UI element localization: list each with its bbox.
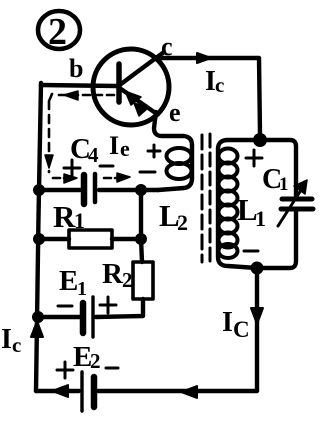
junction node: E1 row left — [33, 312, 44, 323]
svg-text:C: C — [233, 317, 250, 342]
polarity + (left of C4) — [64, 160, 80, 176]
svg-text:2: 2 — [48, 11, 67, 53]
svg-text:b: b — [69, 54, 83, 83]
svg-text:I: I — [109, 131, 119, 160]
junction node: tank bottom — [251, 262, 263, 274]
svg-text:1: 1 — [279, 174, 289, 195]
wire: collector top run — [157, 58, 260, 134]
wire: R1 row left segment — [39, 237, 69, 241]
svg-text:E: E — [59, 265, 78, 297]
inductor L1 loop 7 — [219, 233, 238, 248]
capacitor C1 variable arrow — [278, 187, 303, 226]
inductor L1 loop 1 — [219, 149, 238, 164]
junction node: C4 row right — [136, 185, 147, 196]
current arrow (bottom, mid, pointing left) — [181, 386, 197, 398]
junction node: tank top — [254, 134, 267, 147]
svg-text:e: e — [169, 98, 181, 127]
polarity + (tank top) — [246, 150, 262, 166]
svg-text:R: R — [102, 258, 124, 290]
wire: L2 bottom return to C4 row — [158, 178, 192, 190]
label C1 — [262, 164, 289, 195]
polarity + (E1 right) — [100, 297, 116, 313]
polarity - (tank bottom) — [244, 250, 258, 253]
wire: bottom row left of E2 — [36, 389, 79, 393]
battery E1 positive plate (long thin) — [91, 297, 94, 337]
inductor L1 loop 8 — [219, 244, 238, 258]
svg-text:2: 2 — [122, 268, 133, 292]
svg-text:2: 2 — [90, 349, 101, 373]
junction node: R1 row left — [34, 234, 45, 245]
wire: C4 row left segment — [39, 188, 80, 192]
svg-text:1: 1 — [74, 208, 85, 233]
transistor Q1 emitter arrowhead 2 — [134, 103, 148, 116]
current arrow (bottom, near E2, pointing left) — [52, 385, 68, 397]
polarity - (below emitter plus) — [140, 171, 155, 174]
capacitor C1 plate top — [282, 197, 312, 202]
current arrow Ic (right rail, pointing down) — [251, 308, 263, 324]
svg-text:I: I — [222, 307, 233, 338]
current arrow Ic (left rail, pointing up) — [31, 321, 43, 337]
inductor L2 loop 2 — [167, 163, 192, 179]
svg-text:1: 1 — [255, 206, 266, 231]
label Ic top — [205, 66, 224, 97]
battery E2 negative plate (short thick) — [91, 377, 98, 407]
figure number 2 (circled) — [38, 11, 80, 53]
wire: R1 row right segment — [112, 237, 141, 241]
capacitor C4 plate left — [81, 175, 88, 204]
wire: mid vertical (C4 row to R1 row) — [139, 190, 143, 239]
svg-text:c: c — [215, 73, 224, 97]
inductor L2 loop 1 — [167, 148, 192, 164]
wire: E1 row left segment — [38, 315, 80, 319]
label R2 — [102, 258, 133, 292]
svg-text:e: e — [120, 136, 130, 161]
battery E1 negative plate (short thick) — [80, 303, 87, 333]
junction node: R1 row right — [136, 234, 147, 245]
wire: R2 top lead — [141, 239, 142, 262]
label R1 — [53, 199, 85, 234]
inductor L1 loop 2 — [219, 163, 238, 178]
transistor Q1 emitter stroke — [121, 89, 157, 114]
svg-text:1: 1 — [77, 278, 87, 300]
resistor R1 — [69, 230, 112, 248]
transistor Q1 emitter arrowhead 1 — [125, 91, 141, 105]
transformer core line right — [209, 134, 212, 263]
transformer core line left — [201, 135, 204, 262]
wire: tank right branch bottom — [259, 211, 296, 268]
polarity - (E1 left) — [58, 305, 72, 308]
inductor L1 loop 4 — [219, 191, 238, 206]
label Ie — [109, 131, 130, 161]
junction node: C4 row left — [34, 185, 45, 196]
inductor L2 vertical link — [190, 145, 194, 178]
wire: bottom row right of E2 — [98, 272, 257, 391]
label L1 — [237, 192, 266, 231]
transistor Q1 collector stroke — [121, 52, 164, 84]
battery E2 positive plate (long thin) — [80, 372, 83, 411]
label E1 — [59, 265, 87, 300]
svg-text:c: c — [12, 333, 21, 357]
svg-text:2: 2 — [177, 210, 188, 235]
wire: base lead horizontal — [41, 85, 117, 86]
capacitor C4 plate right — [93, 174, 98, 202]
dashed base-current path: vertical (arrow down) — [48, 101, 51, 172]
svg-text:I: I — [1, 324, 12, 355]
label E2 — [73, 341, 101, 373]
wire: emitter lead down to L2 — [154, 112, 192, 145]
current arrow Ic (top, pointing right) — [197, 53, 211, 63]
wire: tank top left branch — [218, 140, 259, 268]
dashed base-current path: arrow into C4 — [53, 177, 68, 180]
wire: left vertical rail — [36, 83, 41, 391]
dashed base-current path: corner hook — [49, 94, 52, 101]
resistor R2 — [133, 262, 153, 299]
dashed base-current path: arrow after C4 — [104, 177, 119, 180]
polarity - (E2 right) — [106, 367, 118, 370]
transistor Q1 body — [93, 49, 169, 125]
wire: C4 row right segment — [99, 188, 158, 192]
transistor Q1 base bar — [116, 64, 122, 102]
inductor L1 loop 6 — [219, 219, 238, 234]
polarity - (right of C4) — [100, 165, 113, 168]
svg-text:R: R — [53, 199, 76, 234]
capacitor C1 plate bottom — [281, 207, 313, 212]
polarity + (below e, emitter) — [148, 145, 160, 157]
label C4 — [70, 133, 99, 167]
label Ic right — [222, 307, 250, 342]
wire: tank right branch top — [261, 140, 296, 196]
wire: R2 bottom lead to E1 row — [96, 299, 143, 317]
svg-text:4: 4 — [88, 143, 99, 167]
label Ic left — [1, 324, 21, 357]
polarity + (E2 left) — [57, 362, 73, 378]
label L2 — [159, 198, 188, 235]
inductor L1 loop 5 — [219, 205, 238, 220]
dashed base-current path: horizontal under base lead (arrow left) — [45, 91, 130, 183]
inductor L1 loop 3 — [219, 177, 238, 192]
